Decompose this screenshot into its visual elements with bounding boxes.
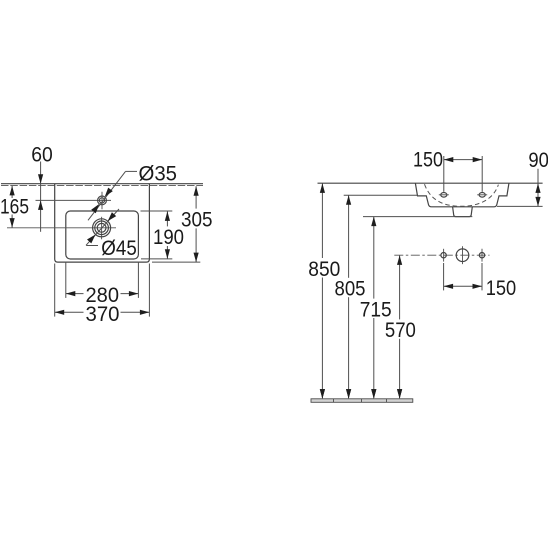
tap hole right (side view)	[479, 193, 485, 198]
svg-text:370: 370	[86, 303, 120, 326]
washbasin profile (side view)	[415, 183, 509, 206]
basin bowl (top view)	[66, 211, 139, 259]
bowl hidden contour (dashed)	[425, 184, 499, 206]
dim 60 (wall to faucet center)	[40, 162, 42, 232]
dim 190 (bowl depth)	[141, 210, 173, 212]
dim 90 (rim height)	[497, 205, 543, 207]
mounting hole left	[441, 253, 446, 258]
svg-text:90: 90	[528, 149, 548, 172]
svg-text:150: 150	[486, 277, 517, 300]
leader line Ø45	[86, 209, 119, 245]
dim 165 (wall to drain center)	[11, 186, 13, 198]
wall line (side view)	[318, 182, 543, 184]
dim 570 (mounting holes height)	[399, 255, 401, 319]
extension line 805	[344, 194, 418, 196]
dim 370 (overall width)	[54, 264, 56, 317]
faucet hole centerlines	[36, 199, 112, 201]
svg-text:715: 715	[360, 298, 392, 321]
dim 850 (rim height from floor)	[321, 183, 323, 258]
svg-text:60: 60	[31, 143, 53, 166]
tap hole left (side view)	[441, 193, 447, 198]
svg-text:805: 805	[335, 278, 366, 301]
mounting hole right	[479, 253, 484, 258]
faucet hole (Ø35)	[98, 196, 107, 205]
mounting holes centerline	[394, 254, 489, 256]
svg-text:Ø35: Ø35	[139, 162, 178, 185]
svg-text:305: 305	[181, 209, 213, 232]
extension line 715 / trap bottom	[363, 216, 472, 218]
dim 805	[348, 195, 350, 278]
svg-text:570: 570	[385, 319, 416, 342]
drain trap box	[453, 207, 473, 217]
drain hole (front view)	[456, 249, 469, 262]
dim 280 (bowl width)	[65, 262, 67, 298]
drain hole (Ø45)	[93, 219, 111, 237]
washbasin outer outline (top view)	[55, 184, 150, 262]
leader line Ø35	[88, 171, 126, 220]
floor arrows	[320, 389, 325, 399]
svg-text:165: 165	[0, 195, 29, 218]
dim 150 bottom (mounting hole spacing)	[443, 263, 445, 290]
dim 715	[373, 217, 375, 299]
svg-text:190: 190	[153, 226, 184, 249]
wall line (top view)	[1, 183, 203, 185]
dim 305 (overall depth)	[152, 261, 200, 263]
dim 150 top (tap hole spacing)	[443, 156, 445, 192]
drain centerlines	[7, 227, 116, 229]
svg-text:150: 150	[413, 148, 443, 171]
floor	[311, 399, 413, 403]
svg-text:Ø45: Ø45	[101, 237, 137, 260]
